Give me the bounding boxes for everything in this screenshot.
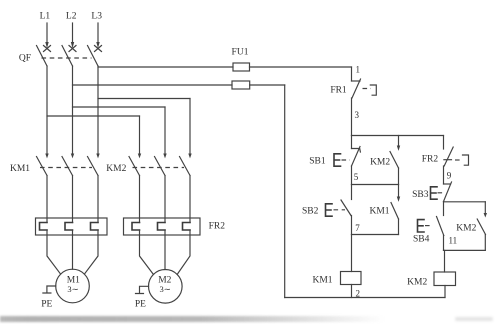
svg-text:3: 3 bbox=[355, 110, 360, 120]
svg-text:KM1: KM1 bbox=[312, 276, 332, 286]
svg-text:FU1: FU1 bbox=[232, 48, 249, 58]
svg-text:KM1: KM1 bbox=[10, 164, 30, 174]
svg-text:L3: L3 bbox=[91, 12, 102, 22]
svg-text:2: 2 bbox=[356, 289, 361, 299]
svg-text:5: 5 bbox=[354, 172, 359, 182]
svg-text:L1: L1 bbox=[40, 12, 51, 22]
svg-text:SB4: SB4 bbox=[413, 235, 430, 245]
svg-text:3∼: 3∼ bbox=[160, 284, 171, 294]
svg-text:KM2: KM2 bbox=[456, 224, 476, 234]
svg-text:SB2: SB2 bbox=[302, 207, 319, 217]
svg-text:PE: PE bbox=[41, 300, 52, 310]
svg-text:1: 1 bbox=[356, 65, 361, 75]
svg-text:9: 9 bbox=[447, 171, 452, 181]
svg-text:PE: PE bbox=[135, 300, 146, 310]
svg-text:FR2: FR2 bbox=[209, 222, 226, 232]
svg-text:7: 7 bbox=[355, 223, 360, 233]
svg-text:SB1: SB1 bbox=[309, 157, 326, 167]
svg-text:SB3: SB3 bbox=[412, 190, 429, 200]
svg-text:KM2: KM2 bbox=[106, 164, 126, 174]
svg-text:KM2: KM2 bbox=[407, 278, 427, 288]
svg-text:3∼: 3∼ bbox=[67, 284, 78, 294]
svg-text:FR2: FR2 bbox=[422, 155, 439, 165]
svg-text:KM1: KM1 bbox=[369, 207, 389, 217]
svg-text:L2: L2 bbox=[66, 12, 77, 22]
svg-text:FR1: FR1 bbox=[330, 86, 347, 96]
svg-text:KM2: KM2 bbox=[370, 158, 390, 168]
svg-text:11: 11 bbox=[449, 236, 458, 246]
svg-text:QF: QF bbox=[19, 54, 31, 64]
